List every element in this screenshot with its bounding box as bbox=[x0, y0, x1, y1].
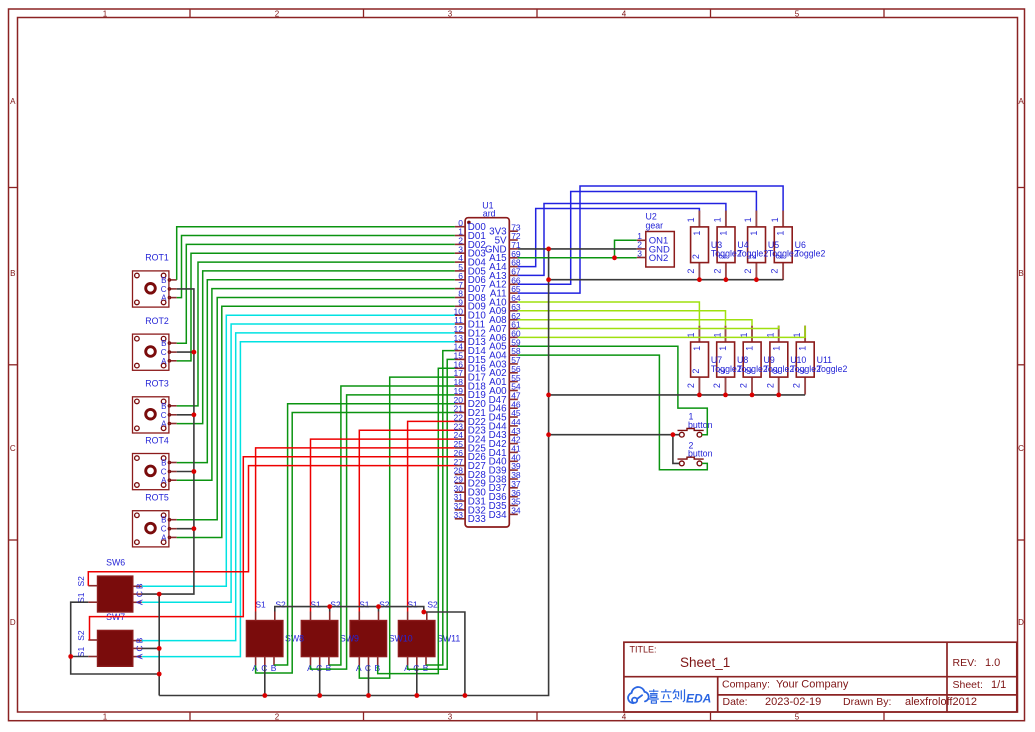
svg-text:1: 1 bbox=[719, 231, 729, 236]
svg-text:1: 1 bbox=[103, 9, 108, 18]
svg-text:D: D bbox=[10, 618, 16, 627]
svg-text:1.0: 1.0 bbox=[985, 657, 1000, 669]
svg-text:ROT2: ROT2 bbox=[145, 316, 169, 326]
junction dots U7-U10 pin2 bus bbox=[697, 393, 702, 398]
svg-text:REV:: REV: bbox=[953, 657, 977, 669]
svg-text:2: 2 bbox=[713, 269, 723, 274]
wire D27 to SW6.S2 bbox=[88, 466, 455, 586]
wire D09 to ROT5.A bbox=[177, 306, 455, 537]
svg-text:C: C bbox=[10, 444, 16, 453]
svg-text:Toggle2: Toggle2 bbox=[711, 364, 742, 374]
wire SW10.C down bbox=[368, 666, 370, 696]
svg-text:ON2: ON2 bbox=[649, 253, 669, 264]
svg-text:1: 1 bbox=[776, 231, 786, 236]
svg-text:1: 1 bbox=[692, 231, 702, 236]
junction dots GND trunk bbox=[546, 247, 551, 252]
wire D25 to SW8.S1 bbox=[256, 448, 455, 612]
svg-text:2: 2 bbox=[691, 369, 701, 374]
svg-text:1: 1 bbox=[770, 217, 780, 222]
wire A05 to button1 bbox=[518, 346, 708, 435]
junction dots ROT C chain bbox=[192, 350, 197, 355]
wire D20 to SW8.B bbox=[274, 404, 455, 665]
wire SW6/SW7 C vertical bbox=[158, 594, 160, 695]
svg-text:D33: D33 bbox=[468, 514, 487, 525]
svg-text:B: B bbox=[161, 459, 166, 468]
svg-text:2: 2 bbox=[743, 269, 753, 274]
wire A06 to U11.1 bbox=[518, 326, 805, 338]
svg-text:A: A bbox=[161, 533, 167, 542]
svg-text:S2: S2 bbox=[76, 576, 86, 587]
wire button2 left branch bbox=[673, 435, 680, 464]
svg-text:Sheet:: Sheet: bbox=[953, 679, 983, 691]
wire D16 to SW10.B bbox=[378, 368, 455, 673]
wire GND vertical trunk + bottom bus bbox=[159, 249, 548, 696]
svg-text:B: B bbox=[1018, 269, 1023, 278]
svg-text:S1: S1 bbox=[310, 599, 321, 609]
svg-text:SW11: SW11 bbox=[437, 634, 460, 644]
junction dot U2 ON1/ON2 bbox=[612, 255, 617, 260]
svg-text:1: 1 bbox=[749, 231, 759, 236]
svg-text:2: 2 bbox=[275, 712, 280, 721]
svg-text:C: C bbox=[161, 468, 167, 477]
wire D01 to ROT1.A bbox=[177, 236, 455, 298]
title block bbox=[624, 642, 1017, 712]
svg-text:A: A bbox=[1018, 97, 1024, 106]
wire SW8-SW11 S2 bus bbox=[275, 607, 465, 696]
U1 right pin numbers bbox=[511, 222, 521, 515]
svg-text:S2: S2 bbox=[427, 599, 438, 609]
svg-text:33: 33 bbox=[454, 510, 464, 520]
svg-text:1: 1 bbox=[745, 346, 755, 351]
svg-text:1: 1 bbox=[743, 217, 753, 222]
svg-text:4: 4 bbox=[622, 9, 627, 18]
svg-text:S2: S2 bbox=[379, 599, 390, 609]
slide switch SW6 bbox=[76, 558, 145, 612]
svg-text:2: 2 bbox=[739, 383, 749, 388]
wire A12 to U5.1 bbox=[518, 192, 757, 285]
svg-text:Toggle2: Toggle2 bbox=[768, 249, 799, 259]
svg-text:3: 3 bbox=[637, 248, 642, 258]
svg-text:1: 1 bbox=[686, 217, 696, 222]
svg-text:4: 4 bbox=[622, 712, 627, 721]
wire D19 to SW9.A bbox=[311, 395, 455, 669]
svg-text:Company:: Company: bbox=[722, 678, 770, 690]
wire GND(71) to U2.GND bbox=[518, 248, 637, 250]
svg-text:Toggle2: Toggle2 bbox=[764, 364, 795, 374]
wire button row branch bbox=[549, 434, 680, 436]
svg-text:B: B bbox=[161, 276, 166, 285]
junction dots S2 bus bbox=[327, 604, 332, 609]
svg-text:C: C bbox=[1018, 444, 1024, 453]
svg-text:ROT3: ROT3 bbox=[145, 379, 169, 389]
svg-text:2: 2 bbox=[686, 383, 696, 388]
svg-text:2: 2 bbox=[691, 254, 701, 259]
svg-text:Toggle2: Toggle2 bbox=[737, 249, 768, 259]
svg-text:D34: D34 bbox=[489, 510, 508, 521]
svg-text:1: 1 bbox=[718, 346, 728, 351]
IC U1 (ard) body bbox=[465, 218, 509, 527]
svg-text:B: B bbox=[10, 269, 15, 278]
svg-text:Your Company: Your Company bbox=[776, 678, 849, 690]
svg-text:2023-02-19: 2023-02-19 bbox=[765, 696, 821, 708]
svg-text:SW6: SW6 bbox=[106, 558, 125, 568]
junction dots SW6/SW7 net bbox=[157, 592, 162, 597]
svg-text:S1: S1 bbox=[76, 647, 86, 658]
rotary encoder ROT4 bbox=[133, 435, 177, 489]
svg-text:2: 2 bbox=[770, 269, 780, 274]
wire D18 to SW9.B bbox=[329, 386, 455, 665]
rotary encoder ROT3 bbox=[133, 379, 177, 433]
svg-text:Toggle2: Toggle2 bbox=[790, 364, 821, 374]
svg-text:C: C bbox=[161, 525, 167, 534]
U1 pin-1 marker dot bbox=[467, 221, 471, 225]
toggle switch U3 (Toggle2) bbox=[686, 211, 742, 281]
slide switch SW8 bbox=[246, 599, 304, 673]
svg-text:SW9: SW9 bbox=[340, 634, 359, 644]
wire U3-U6 pin2 bus bbox=[549, 279, 784, 281]
svg-text:5: 5 bbox=[795, 9, 800, 18]
rotary encoder ROT5 bbox=[133, 493, 177, 547]
wire D00 to ROT1.B bbox=[177, 227, 455, 280]
svg-text:gear: gear bbox=[646, 220, 664, 230]
component U2 (gear) bbox=[637, 212, 675, 268]
U1 right pin stubs bbox=[509, 231, 518, 514]
wire SW11.C down bbox=[416, 666, 418, 696]
svg-text:3: 3 bbox=[448, 9, 453, 18]
wire ROT3.C branch bbox=[177, 414, 194, 416]
wire ROT4.C branch bbox=[177, 471, 194, 473]
wire A08 to U9.1 bbox=[518, 320, 752, 326]
svg-text:alexfroloff2012: alexfroloff2012 bbox=[905, 696, 977, 708]
toggle switch U11 (Toggle2) bbox=[792, 326, 848, 395]
U1 left pin stubs 0-33 bbox=[455, 227, 465, 519]
toggle switch U8 (Toggle2) bbox=[712, 326, 768, 395]
svg-text:ROT1: ROT1 bbox=[145, 253, 169, 263]
svg-text:B: B bbox=[161, 339, 166, 348]
U1 right pin names bbox=[485, 227, 507, 521]
push button 2 bbox=[678, 440, 713, 466]
svg-text:C: C bbox=[161, 348, 167, 357]
svg-text:2: 2 bbox=[712, 383, 722, 388]
svg-text:Drawn By:: Drawn By: bbox=[843, 696, 891, 708]
svg-text:1: 1 bbox=[771, 346, 781, 351]
svg-text:A: A bbox=[161, 420, 167, 429]
svg-text:C: C bbox=[161, 285, 167, 294]
JLC EDA logo cloud bbox=[628, 687, 649, 703]
svg-text:D: D bbox=[1018, 618, 1024, 627]
wire D26 to SW7.S2 bbox=[90, 457, 455, 640]
wire D07 to ROT4.A bbox=[177, 289, 455, 481]
wire U7-U11 pin2 bus bbox=[549, 394, 806, 396]
wire D08 to ROT5.B bbox=[177, 298, 455, 520]
wire D24 to SW9.S1 bbox=[311, 439, 455, 611]
wire D12 to SW7.B bbox=[142, 333, 455, 641]
wire A15 to U2.ON2 bbox=[518, 257, 637, 259]
wire SW8.C down bbox=[264, 666, 266, 696]
wire D21 to SW8.A bbox=[256, 413, 455, 674]
wire ROT5.C branch bbox=[177, 528, 194, 530]
U1 left pin names D00-D33 bbox=[468, 222, 487, 525]
wire SW7.C branch bbox=[142, 647, 159, 649]
svg-text:A: A bbox=[161, 357, 167, 366]
wire D06 to ROT4.B bbox=[177, 280, 455, 463]
svg-text:ard: ard bbox=[483, 209, 496, 219]
svg-text:S1: S1 bbox=[76, 592, 86, 603]
svg-text:1: 1 bbox=[798, 346, 808, 351]
wire SW10.S2 stub link bbox=[378, 607, 380, 612]
svg-text:A: A bbox=[161, 476, 167, 485]
rotary encoder ROT1 bbox=[133, 253, 177, 307]
svg-text:34: 34 bbox=[511, 506, 521, 516]
wire A11 to U6.1 bbox=[518, 186, 783, 293]
wire branch U2.ON1 bbox=[615, 240, 637, 257]
wire D10 to SW6.B bbox=[142, 315, 455, 586]
slide switch SW9 bbox=[301, 599, 359, 673]
svg-text:S1: S1 bbox=[407, 599, 418, 609]
wire A04 to button2 bbox=[518, 355, 708, 470]
svg-text:ROT4: ROT4 bbox=[145, 435, 169, 445]
wire D05 to ROT3.A bbox=[177, 271, 455, 424]
svg-text:1: 1 bbox=[103, 712, 108, 721]
svg-text:S2: S2 bbox=[330, 599, 341, 609]
wire SW9.S2 stub link bbox=[329, 607, 331, 612]
wire D03 to ROT2.A bbox=[177, 253, 455, 361]
wire D15 to SW11.A bbox=[408, 359, 455, 669]
wire D02 to ROT2.B bbox=[177, 244, 455, 343]
svg-text:2: 2 bbox=[765, 383, 775, 388]
svg-text:5: 5 bbox=[795, 712, 800, 721]
junction dot button branch bbox=[671, 432, 676, 437]
slide switch SW11 bbox=[398, 599, 460, 673]
svg-text:S2: S2 bbox=[76, 630, 86, 641]
svg-text:EDA: EDA bbox=[686, 691, 711, 705]
junction dots U3-U5 pin2 bus bbox=[697, 277, 702, 282]
svg-text:TITLE:: TITLE: bbox=[630, 644, 657, 654]
wire A07 to U10.1 bbox=[518, 326, 779, 329]
toggle switch U6 (Toggle2) bbox=[770, 211, 826, 281]
toggle switch U7 (Toggle2) bbox=[686, 326, 742, 395]
junction dots bottom GND bus bbox=[262, 693, 267, 698]
svg-text:Sheet_1: Sheet_1 bbox=[680, 655, 730, 670]
U1 left pin numbers 0-33 bbox=[454, 218, 464, 520]
svg-text:B: B bbox=[161, 516, 166, 525]
wire SW9.C down bbox=[319, 666, 321, 696]
push button 1 bbox=[678, 412, 713, 438]
wire A13 to U4.1 bbox=[518, 204, 726, 276]
svg-text:2: 2 bbox=[686, 269, 696, 274]
toggle switch U5 (Toggle2) bbox=[743, 211, 799, 281]
wire SW7.S1 branch bbox=[71, 656, 89, 658]
svg-text:S1: S1 bbox=[255, 599, 266, 609]
svg-text:S1: S1 bbox=[359, 599, 370, 609]
svg-text:S2: S2 bbox=[275, 599, 286, 609]
svg-text:Date:: Date: bbox=[723, 696, 748, 708]
toggle switch U4 (Toggle2) bbox=[713, 211, 769, 281]
svg-text:C: C bbox=[161, 411, 167, 420]
wire D22 to SW11.S1 bbox=[408, 421, 455, 611]
slide switch SW10 bbox=[350, 599, 413, 673]
toggle switch U10 (Toggle2) bbox=[765, 326, 821, 395]
svg-text:SW10: SW10 bbox=[389, 634, 413, 644]
svg-text:1: 1 bbox=[713, 217, 723, 222]
svg-text:1/1: 1/1 bbox=[991, 679, 1006, 691]
slide switch SW7 bbox=[76, 612, 145, 666]
wire ROT2.C branch bbox=[177, 351, 194, 353]
wire SW6.S1 loop bbox=[71, 602, 160, 674]
svg-text:Toggle2: Toggle2 bbox=[795, 249, 826, 259]
wire A10 to U7.1 bbox=[518, 302, 700, 326]
wire D13 to SW7.A bbox=[142, 342, 455, 657]
svg-text:3: 3 bbox=[448, 712, 453, 721]
wire D23 to SW10.S1 bbox=[359, 430, 455, 611]
svg-text:2: 2 bbox=[792, 383, 802, 388]
wire D14 to SW11.B bbox=[426, 351, 455, 665]
logo chinese characters 嘉立创 (drawn strokes) bbox=[648, 689, 684, 703]
wire D11 to SW6.A bbox=[142, 324, 455, 602]
wire D04 to ROT3.B bbox=[177, 262, 455, 406]
svg-text:ROT5: ROT5 bbox=[145, 493, 169, 503]
svg-text:A: A bbox=[10, 97, 16, 106]
toggle switch U9 (Toggle2) bbox=[739, 326, 795, 395]
svg-text:B: B bbox=[161, 402, 166, 411]
wire SW6.C to ROT C chain bbox=[142, 289, 194, 594]
svg-text:A: A bbox=[161, 294, 167, 303]
svg-text:2: 2 bbox=[275, 9, 280, 18]
wire A09 to U8.1 bbox=[518, 311, 726, 326]
wire A14 to U3.1 bbox=[518, 209, 700, 267]
svg-text:1: 1 bbox=[692, 346, 702, 351]
wire D17 to SW10.A bbox=[359, 377, 455, 678]
svg-text:Toggle2: Toggle2 bbox=[817, 364, 848, 374]
svg-text:Toggle2: Toggle2 bbox=[711, 249, 742, 259]
rotary encoder ROT2 bbox=[133, 316, 177, 370]
